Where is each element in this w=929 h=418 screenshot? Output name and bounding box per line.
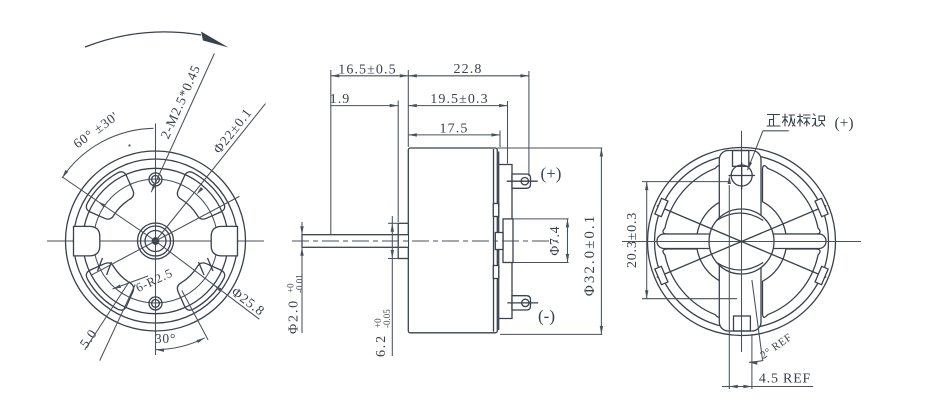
60 deg dimension arc: [62, 128, 153, 178]
shaft over boss: [399, 235, 408, 248]
middle view: motor side section: [286, 62, 604, 357]
outer circle rear: [648, 148, 836, 336]
svg-text:1.9: 1.9: [330, 92, 351, 107]
leader positive mark: [763, 130, 789, 132]
stray center mark: [128, 144, 130, 146]
screw hole bottom inner: [152, 300, 160, 308]
svg-text:Φ7.4: Φ7.4: [547, 226, 562, 256]
rim tab: [655, 198, 668, 216]
rim tab: [815, 198, 828, 216]
label zhengji biaoshi (+): [767, 115, 780, 127]
svg-text:22.8: 22.8: [454, 62, 483, 77]
extension line mounting face: [407, 70, 409, 147]
dimension line 16.5: [331, 75, 409, 77]
rim tab: [815, 266, 828, 284]
svg-text:16.5±0.5: 16.5±0.5: [338, 62, 396, 77]
leader pair 5.0: [85, 281, 130, 350]
wing NE: [763, 166, 821, 234]
label 6.2 tol: [373, 309, 392, 357]
rear bearing hub dia7.4: [503, 219, 513, 263]
positive mark hole: [731, 165, 752, 186]
reference line right: [751, 334, 753, 389]
svg-text:17.5: 17.5: [440, 122, 469, 137]
2deg arc: [749, 361, 763, 363]
svg-text:-0.01: -0.01: [295, 274, 305, 293]
leader 2-M2.5: [151, 54, 214, 193]
tick mark right a: [208, 258, 214, 271]
end cap plate: [499, 165, 512, 319]
svg-text:Φ22±0.1: Φ22±0.1: [210, 105, 255, 156]
terminal eyelet -: [522, 299, 529, 306]
terminal (+): [512, 174, 531, 188]
left view: motor front face: [47, 32, 268, 361]
shaft: [302, 235, 408, 248]
outer circle (motor body): [66, 151, 246, 331]
flange circle: [74, 159, 238, 323]
tick mark right b: [199, 262, 205, 275]
circle dia 25.8: [83, 168, 228, 313]
vertical center line right view: [741, 131, 743, 352]
dimension line 20.3: [646, 182, 648, 299]
hub outer: [138, 223, 174, 259]
dimension line 4.5REF: [729, 386, 813, 388]
hub inner: [145, 231, 166, 252]
mounting slot SE: [177, 263, 224, 310]
notch right: [211, 226, 237, 256]
extension line terminal: [528, 71, 530, 176]
dimension line 1.9: [331, 105, 398, 107]
rotor bump top: [717, 213, 764, 221]
extension dia32 bottom: [500, 333, 602, 335]
30 deg dimension arc: [156, 338, 205, 350]
dimension line 19.5: [408, 105, 507, 107]
rotation direction arc: [85, 32, 201, 47]
screw hole top inner: [152, 176, 160, 184]
svg-text:20.3±0.3: 20.3±0.3: [625, 212, 640, 268]
shaft center: [152, 238, 158, 244]
extension dia7.4 bottom: [513, 262, 569, 264]
extension line cap right: [507, 101, 509, 164]
end cap left edge: [498, 152, 500, 331]
tick mark left b: [107, 262, 112, 275]
motor body can: [408, 148, 497, 333]
extension line shaft end: [330, 70, 332, 235]
mounting slot SW: [86, 263, 133, 310]
extension line boss: [397, 101, 399, 223]
right view: motor rear face: [622, 114, 861, 389]
svg-text:30°: 30°: [155, 331, 176, 346]
wing SW: [663, 249, 721, 317]
extension dia32 top: [497, 147, 602, 149]
vertical center line: [155, 124, 157, 356]
rotor bump bottom: [717, 263, 764, 271]
hub middle: [141, 226, 171, 256]
extension 20.3 bottom: [642, 298, 737, 300]
terminal (-): [512, 296, 531, 310]
dimension line dia7.4: [567, 219, 569, 263]
svg-text:5.0: 5.0: [77, 326, 100, 350]
2 deg tilted line: [752, 280, 763, 360]
bolt circle dia 22: [94, 179, 218, 303]
horizontal center line: [47, 240, 264, 242]
mounting slot NW: [86, 172, 133, 219]
svg-text:(-): (-): [538, 307, 555, 326]
leader 6-R2.5: [113, 276, 149, 289]
spoke chord 28deg: [92, 196, 240, 274]
tick mark left a: [98, 258, 103, 271]
leader line 60 deg (145deg radial): [62, 177, 155, 241]
leader line dia25.8 (-37deg radial): [156, 241, 260, 319]
wing NW: [663, 166, 721, 234]
terminal window top: [733, 151, 749, 167]
rotor circle: [709, 209, 774, 274]
svg-text:19.5±0.3: 19.5±0.3: [430, 92, 488, 107]
cap tab lower: [493, 266, 498, 279]
notch left: [74, 226, 100, 256]
screw hole bottom M2.5: [149, 297, 162, 310]
dimension line dia32: [600, 148, 602, 334]
svg-text:4.5 REF: 4.5 REF: [759, 372, 811, 387]
wing SE: [763, 249, 821, 317]
rim tab: [655, 266, 668, 284]
svg-text:6.2: 6.2: [374, 334, 389, 357]
mounting slot NE: [177, 172, 224, 219]
svg-text:6-R2.5: 6-R2.5: [134, 266, 175, 295]
screw hole top M2.5: [149, 173, 162, 186]
cap tab upper: [493, 204, 498, 217]
bearing boss: [398, 223, 408, 258]
reference line left: [728, 185, 730, 389]
svg-text:2° REF: 2° REF: [758, 331, 794, 361]
svg-text:(+): (+): [541, 164, 562, 183]
extension line can right: [499, 131, 501, 148]
svg-text:-0.05: -0.05: [382, 309, 392, 328]
terminal eyelet +: [521, 178, 528, 185]
horizontal center line right view: [622, 241, 861, 243]
center line: [292, 240, 560, 242]
extension 20.3 top: [642, 181, 730, 183]
dimension line dia2.0: [301, 222, 303, 333]
svg-text:Φ25.8: Φ25.8: [229, 284, 268, 319]
leader line dia22 (48deg radial): [156, 104, 266, 241]
dimension line 22.8: [408, 75, 529, 77]
dimension line 17.5: [408, 134, 500, 136]
inner rim circle rear: [655, 155, 829, 329]
svg-text:Φ32.0±0.1: Φ32.0±0.1: [582, 214, 598, 296]
diagonal chord: [657, 206, 826, 278]
svg-text:(+): (+): [834, 115, 853, 132]
dimension line 6.2: [391, 216, 393, 356]
leader line 30deg (-62deg radial): [182, 290, 208, 340]
label dia2.0 tol: [286, 274, 305, 334]
horizontal arm slot: [657, 234, 826, 249]
diagonal chord: [657, 206, 826, 278]
terminal window bottom: [734, 316, 751, 331]
vertical arm slot: [719, 151, 761, 332]
extension dia7.4 top: [513, 218, 569, 220]
svg-text:Φ2.0: Φ2.0: [287, 299, 302, 334]
can inner edge: [493, 149, 495, 332]
